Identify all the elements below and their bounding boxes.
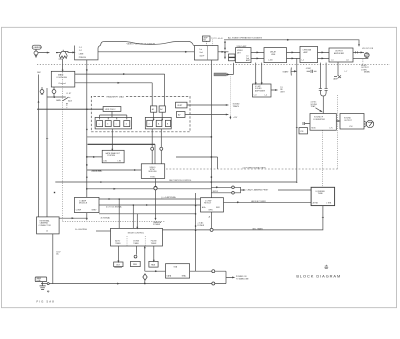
svg-text:TIMED: TIMED <box>115 243 121 245</box>
svg-text:COUPLING: COUPLING <box>56 77 67 79</box>
svg-text:LINE: LINE <box>271 54 276 56</box>
lamp DS1 <box>334 75 341 78</box>
wire long line y193 <box>87 188 212 189</box>
label box MAIN LINE <box>35 277 47 282</box>
svg-text:OUTPUT: OUTPUT <box>344 120 353 122</box>
wire 4.5 signal line <box>87 169 142 170</box>
wire V3 to V4 <box>287 52 301 59</box>
svg-text:POWER: POWER <box>153 224 161 226</box>
wire stub right of sync <box>176 157 218 169</box>
box V3 delay line <box>264 48 287 63</box>
svg-text:3rd IF: 3rd IF <box>199 54 205 57</box>
wire V4 drops to caps <box>320 63 326 89</box>
box V5 output amplifier <box>329 48 353 62</box>
box STA data <box>166 264 190 278</box>
box lamp small top <box>203 36 211 41</box>
svg-text:ALL STAGE OPERATING VOLTAGES: ALL STAGE OPERATING VOLTAGES <box>228 37 263 40</box>
node circle N1 <box>151 147 154 150</box>
wire center-left rail <box>86 71 88 197</box>
svg-text:J2: J2 <box>46 230 48 232</box>
wire STA right with circle <box>190 270 226 272</box>
svg-text:MXXX: MXXX <box>213 191 219 193</box>
svg-text:SYNC: SYNC <box>150 176 156 178</box>
wire MAIN COUPLING out lower <box>75 82 152 106</box>
svg-text:TUBE: TUBE <box>318 193 324 195</box>
box AC1 <box>151 106 157 112</box>
wire long line y197 <box>99 198 201 199</box>
wire V2 drops to oscillator <box>255 63 262 84</box>
wire V5 lower line to connector <box>353 57 368 59</box>
capacitor C7 trap <box>307 70 317 73</box>
svg-text:L TRB: L TRB <box>326 202 332 204</box>
wire bus horizontal left <box>37 108 103 110</box>
svg-text:A TRB: A TRB <box>313 201 319 204</box>
wire dotted y221 <box>63 220 166 222</box>
wire dashed to label <box>362 60 364 64</box>
box CR3 <box>165 120 170 126</box>
wire arrow up-down at V1 right <box>224 41 225 49</box>
wire bottom long line <box>41 283 226 284</box>
box CR1 <box>147 120 153 126</box>
box V4 chroma amp <box>300 46 318 62</box>
label lozenge comparator <box>214 73 226 76</box>
box WITH PATCH <box>103 107 121 112</box>
box SYNC module <box>141 164 164 179</box>
box MAIN COUPLING <box>51 71 75 87</box>
wire V5 drop to lamp <box>337 62 339 76</box>
wire mode feeds <box>119 199 138 228</box>
symbol small triangle <box>47 291 49 292</box>
svg-text:a: a <box>99 124 100 126</box>
svg-text:FIG 5A8: FIG 5A8 <box>37 299 55 303</box>
svg-text:L-3: L-3 <box>254 95 257 97</box>
box A1 sound IF <box>310 114 336 131</box>
wire center tall rail <box>210 60 212 230</box>
svg-text:HI VOLT: HI VOLT <box>204 203 212 205</box>
box A2 speaker amplifier <box>340 114 364 130</box>
pin boxes P1 P2 <box>229 54 236 57</box>
wire V4 to V5 <box>318 52 330 59</box>
svg-text:4.5 POWER SIGNAL PATH: 4.5 POWER SIGNAL PATH <box>242 166 266 169</box>
wire mode return up-arrow <box>144 247 145 272</box>
svg-text:SERV: SERV <box>92 209 98 211</box>
svg-text:VID OUT CON: VID OUT CON <box>362 48 374 50</box>
svg-text:TRAPS: TRAPS <box>233 105 240 108</box>
wire long line y215 <box>99 213 196 215</box>
box CL2 <box>105 121 111 127</box>
wire dashed lamp to V1 <box>205 41 207 45</box>
svg-text:COMP: COMP <box>76 209 82 211</box>
svg-text:MODE CONTROL: MODE CONTROL <box>128 233 145 235</box>
capacitor C6 <box>325 89 328 93</box>
wire drops below containers <box>112 129 113 150</box>
tiny stacked glyph <box>324 265 328 269</box>
dashed box HEADSHIFT <box>91 96 190 131</box>
container CR right group <box>145 117 171 128</box>
wire caps join <box>320 93 326 114</box>
svg-text:MOD: MOD <box>312 128 317 130</box>
wire bold bus <box>88 143 156 145</box>
svg-text:A/B+: A/B+ <box>202 206 206 209</box>
svg-text:4.5MC: 4.5MC <box>306 68 312 70</box>
svg-text:e: e <box>149 124 150 126</box>
wire V5 to connector <box>353 51 364 53</box>
wire V2 to V3 upper/lower <box>251 52 264 59</box>
wire AC drops <box>153 112 163 120</box>
box VISTA <box>176 102 188 108</box>
svg-text:HEADSHIFT DIAG: HEADSHIFT DIAG <box>107 95 125 98</box>
wire V1 to V2 <box>218 51 229 52</box>
speaker LS1 <box>366 120 373 127</box>
connector J1 video output <box>364 53 369 58</box>
box MODE CONTROL <box>111 228 163 246</box>
wire left rail 2 <box>46 88 48 217</box>
wire connector drop <box>52 234 54 284</box>
svg-text:2nd: 2nd <box>199 52 202 54</box>
transistor Q1 <box>59 50 67 59</box>
wire stub into mode left <box>96 230 111 232</box>
wire crt drop and return line <box>163 206 323 230</box>
svg-text:TRAP: TRAP <box>311 105 317 108</box>
svg-text:VERT: VERT <box>177 105 183 107</box>
microphone M1 <box>34 51 38 55</box>
wire long line y204 <box>99 204 201 205</box>
svg-text:L-7: L-7 <box>345 71 348 73</box>
wire mic to transistor <box>38 52 61 53</box>
wire into STA <box>145 271 166 272</box>
brace shape 1-1/1-2 LINE PRESS <box>75 45 101 60</box>
wire right tall rail <box>296 58 298 183</box>
wire sync drop to camera power <box>155 178 157 186</box>
diamond connector <box>143 274 147 280</box>
svg-text:(+) +5 ANTENNA: (+) +5 ANTENNA <box>161 196 176 199</box>
svg-text:POWER: POWER <box>197 225 204 227</box>
svg-text:LAMP: LAMP <box>333 78 339 81</box>
wire small down arrow <box>230 116 231 119</box>
wire left rail 1 <box>38 75 39 217</box>
wire rail x195 <box>195 193 197 271</box>
capacitor C5 <box>319 89 322 93</box>
svg-text:L-6: L-6 <box>346 60 349 62</box>
svg-text:W/R PROC: W/R PROC <box>105 109 116 111</box>
svg-text:L-2: L-2 <box>302 60 305 62</box>
wire mode outputs down <box>118 246 119 262</box>
box small L7B with cap <box>303 122 310 125</box>
wire osc to RF label <box>271 89 277 90</box>
wire transistor emitter to coupling <box>62 59 63 72</box>
wire MAIN COUPLING out upper <box>75 74 165 106</box>
brace curve VIDEO PORTION OF... <box>101 41 194 45</box>
svg-text:L-100: L-100 <box>268 60 273 62</box>
wire tally pair <box>211 187 231 188</box>
wire circles into sync <box>152 150 161 164</box>
wire brace box to video amp V1 <box>98 51 194 52</box>
svg-text:DATA SOME: DATA SOME <box>91 170 102 173</box>
svg-text:CRAZY JAMMING PRINT: CRAZY JAMMING PRINT <box>247 189 270 192</box>
wire tally to crt <box>278 189 311 191</box>
svg-text:START: START <box>283 71 290 74</box>
box AC2 <box>159 106 165 112</box>
node CAMERA input oval <box>32 45 41 49</box>
wire 45 signal from connector <box>59 218 87 219</box>
svg-text:BLOCK DIAGRAM: BLOCK DIAGRAM <box>296 274 341 279</box>
wire sound IF to amp <box>336 120 340 121</box>
capacitor C1 below box <box>41 87 43 89</box>
svg-text:MAIN: MAIN <box>56 99 61 102</box>
wire thin bus under dashed box <box>87 136 212 138</box>
svg-text:d: d <box>126 124 127 126</box>
wire long line y182 <box>55 182 296 183</box>
wire rail to gate box <box>87 156 102 157</box>
svg-text:ANODE POWER: ANODE POWER <box>251 200 266 203</box>
svg-text:AMP MIXER: AMP MIXER <box>255 89 266 92</box>
svg-text:b: b <box>107 124 108 126</box>
ground GND1 <box>40 282 46 290</box>
wire transistor to line box <box>66 51 75 53</box>
box CL4 <box>124 121 130 127</box>
svg-text:SEAL: SEAL <box>182 275 187 278</box>
wire left rail dotted <box>62 66 64 221</box>
wire dotted crt feed <box>322 130 324 187</box>
box V1 video input <box>194 46 218 61</box>
wire patch to container stubs <box>100 111 127 119</box>
box CR2 <box>156 120 162 126</box>
svg-text:TO MAIN LINE: TO MAIN LINE <box>236 277 249 280</box>
svg-text:DATA: DATA <box>167 275 172 278</box>
svg-text:MTL TIMER: MTL TIMER <box>253 228 264 230</box>
svg-text:PRESS: PRESS <box>79 57 87 59</box>
svg-text:LINE: LINE <box>79 54 84 56</box>
box HI-VOLT supply <box>201 198 224 212</box>
wire bracket to arrow text <box>226 271 234 283</box>
node circle above REB <box>134 255 137 258</box>
box CL3 <box>114 121 120 127</box>
svg-text:MODULE: MODULE <box>149 171 158 173</box>
svg-text:c: c <box>116 124 117 126</box>
box GATE readout <box>102 150 124 163</box>
svg-text:MIC: MIC <box>37 72 41 74</box>
box EXT camera connector <box>37 217 60 234</box>
dashed 4.5 power signal path <box>166 168 338 170</box>
svg-text:CAMERA: CAMERA <box>33 46 42 49</box>
box HEA small <box>149 261 158 267</box>
wire B+ top rail <box>224 39 360 46</box>
node circle N2 <box>160 147 163 150</box>
box CRT picture tube <box>311 187 335 205</box>
node circle on line <box>47 283 49 285</box>
wire vista outputs to sound traps <box>187 104 228 105</box>
wire amp module drop <box>86 213 87 220</box>
svg-text:45 SIGNAL: 45 SIGNAL <box>101 216 111 219</box>
box REB small <box>131 261 141 266</box>
capacitor C4 on rail <box>291 68 296 76</box>
svg-text:L-5: L-5 <box>331 60 334 62</box>
capacitor C2 below box <box>53 87 55 89</box>
svg-text:B+ LIGHTING: B+ LIGHTING <box>75 229 87 231</box>
svg-text:CONNECTOR: CONNECTOR <box>39 225 52 227</box>
box 1.5 AMP module <box>75 197 100 212</box>
container CL left group <box>95 117 132 128</box>
dotted separator line <box>37 64 390 66</box>
svg-text:+B +B: +B +B <box>218 38 224 40</box>
svg-text:MODULE: MODULE <box>79 203 88 205</box>
box VISTA2 <box>176 112 185 118</box>
svg-text:TIMED: TIMED <box>133 243 139 245</box>
svg-text:TIMER: TIMER <box>151 243 157 245</box>
svg-text:L-4: L-4 <box>265 95 268 97</box>
box U1 4.5MHz oscillator <box>253 84 272 97</box>
wire anode power <box>224 202 312 203</box>
svg-text:CONVERTER: CONVERTER <box>313 119 325 121</box>
wire dotted audio rail <box>337 95 339 169</box>
switch S1 MAIN/AUX <box>63 97 71 101</box>
wire drop from brace box bottom <box>86 60 87 71</box>
box OUT small <box>114 262 123 267</box>
svg-text:SYSTEM: SYSTEM <box>107 155 115 157</box>
svg-text:AMPLIFIER: AMPLIFIER <box>334 52 345 55</box>
svg-text:VIDEO PORTION OF TYPICAL: VIDEO PORTION OF TYPICAL <box>127 42 157 45</box>
wire stub to switch <box>47 96 66 98</box>
svg-text:(REAR): (REAR) <box>364 70 370 73</box>
box CL1 <box>97 121 103 127</box>
